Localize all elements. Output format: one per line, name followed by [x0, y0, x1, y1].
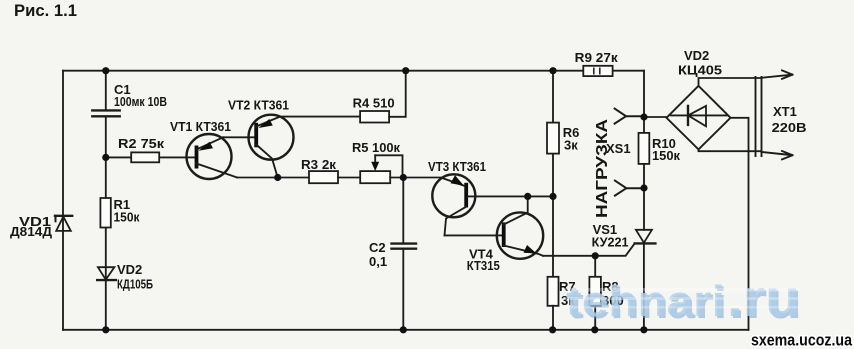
svg-text:R2 75к: R2 75к: [118, 136, 165, 151]
svg-text:КЦ405: КЦ405: [678, 63, 722, 78]
wire R8 column: [594, 256, 596, 330]
node bottom rail / VS1: [640, 326, 647, 333]
svg-text:tehnari: tehnari: [566, 277, 725, 326]
resistor R4: [360, 111, 389, 123]
node VT4 collector: [524, 193, 531, 200]
connector XS1 bottom arrow: [615, 181, 641, 196]
node R6 / VT3 base: [549, 193, 556, 200]
node bottom rail / R7: [549, 326, 556, 333]
wire R2 to VT1 base: [106, 156, 195, 158]
transistor VT3 КТ361: [432, 174, 475, 235]
wire R6 column: [552, 71, 554, 277]
wire R4 to top rail: [389, 71, 406, 117]
resistor R8: [589, 277, 601, 306]
resistor R2: [131, 152, 159, 162]
wire R5 to VT3 emitter: [390, 177, 441, 179]
svg-text:Д814Д: Д814Д: [10, 224, 53, 239]
wire left rail: [62, 71, 64, 330]
svg-text:R4 510: R4 510: [353, 96, 395, 111]
svg-text:Рис. 1.1: Рис. 1.1: [14, 2, 77, 20]
potentiometer R5: [360, 155, 402, 183]
svg-text:220В: 220В: [772, 120, 807, 135]
resistor R10: [639, 133, 650, 164]
connector XS1 top arrow: [615, 109, 641, 124]
wire VT3 collector to VT4 base: [445, 234, 502, 236]
wire bridge top corner to XT1: [699, 78, 762, 86]
XT1 bottom arrow: [762, 151, 793, 159]
node top rail / R6: [549, 67, 556, 74]
wire R10 to lower node: [643, 164, 645, 188]
svg-text:sxema.ucoz.ua: sxema.ucoz.ua: [751, 331, 852, 349]
svg-text:150к: 150к: [114, 210, 140, 225]
watermark tehnari.ru: [563, 270, 802, 330]
node VT2 collector: [274, 174, 281, 181]
node bottom rail / VD2: [102, 326, 109, 333]
resistor R6: [547, 123, 559, 154]
watermark sxema.ucoz.ua: [751, 331, 852, 349]
svg-text:VD2: VD2: [684, 48, 709, 63]
capacitor C1: [92, 110, 119, 116]
wire VT4 emitter to thyristor gate: [543, 243, 635, 255]
capacitor C2: [392, 244, 417, 249]
svg-text:VT3 КТ361: VT3 КТ361: [428, 159, 486, 174]
wire R3 to R5: [338, 177, 360, 179]
wire VT3 base to R6 column: [468, 195, 553, 197]
wire R9 corner down to bridge node: [643, 71, 645, 133]
bridge rectifier VD2 КЦ405: [667, 86, 731, 150]
node XS1 bottom: [640, 184, 647, 191]
node XS1 top: [640, 113, 647, 120]
connector XT1 double lines: [756, 77, 762, 156]
svg-text:VT1 КТ361: VT1 КТ361: [170, 119, 231, 134]
svg-text:КУ221: КУ221: [592, 235, 629, 250]
svg-text:R5 100к: R5 100к: [352, 140, 400, 155]
wire VT2 emitter to R4: [280, 116, 360, 118]
wire bridge node to diamond: [644, 116, 667, 118]
node bottom rail / R8: [591, 326, 598, 333]
svg-text:0,1: 0,1: [369, 254, 387, 269]
svg-text:R9 27к: R9 27к: [575, 50, 619, 65]
zener diode VD1 Д814Д: [55, 216, 72, 231]
transistor VT1 КТ361: [187, 134, 238, 179]
resistor R1: [100, 198, 110, 228]
svg-text:КД105Б: КД105Б: [117, 277, 153, 292]
svg-text:XS1: XS1: [606, 141, 631, 156]
wire R7 to bottom rail: [552, 306, 554, 330]
wire right drop from bridge right corner: [731, 118, 749, 330]
svg-text:VT2 КТ361: VT2 КТ361: [228, 98, 289, 113]
wire VT1 collector rail to R3: [237, 177, 309, 179]
svg-text:150к: 150к: [652, 148, 680, 163]
diode VD2 КД105Б: [97, 267, 116, 280]
thyristor VS1 КУ221: [635, 188, 656, 330]
node top rail / R4: [402, 67, 409, 74]
svg-text:R3 2к: R3 2к: [301, 157, 337, 172]
wire bridge bottom corner to XT1: [699, 149, 762, 151]
svg-text:100мк 10В: 100мк 10В: [114, 94, 167, 109]
wire top rail: [63, 70, 644, 72]
node R5 / C2: [400, 174, 407, 181]
node bottom rail / C2: [400, 326, 407, 333]
svg-text:КТ315: КТ315: [467, 258, 500, 273]
resistor R9: [583, 66, 612, 76]
XT1 top arrow: [762, 70, 793, 79]
node R8 top / gate: [592, 252, 599, 259]
node C1 / R2: [102, 154, 109, 161]
svg-text:3к: 3к: [564, 138, 578, 153]
wire C1/R1/VD2 branch: [105, 71, 107, 330]
transistor VT4 КТ315: [497, 196, 543, 258]
wire C2 branch: [402, 178, 404, 330]
wire VT1 emitter to VT2 base: [223, 136, 254, 138]
node top rail / C1 branch: [102, 67, 109, 74]
svg-text:НАГРУЗКА: НАГРУЗКА: [594, 118, 611, 218]
wire bottom rail: [63, 329, 749, 331]
transistor VT2 КТ361: [249, 115, 294, 178]
svg-text:C2: C2: [369, 240, 386, 255]
resistor R7: [548, 277, 559, 306]
resistor R3: [309, 171, 338, 183]
svg-text:XT1: XT1: [773, 104, 797, 119]
svg-text:VD2: VD2: [117, 262, 142, 277]
